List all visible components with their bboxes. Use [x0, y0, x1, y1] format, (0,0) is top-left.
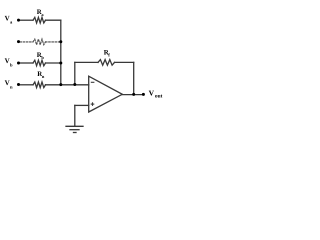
svg-text:out: out: [155, 94, 163, 100]
svg-text:V: V: [5, 79, 10, 87]
svg-text:f: f: [108, 53, 110, 58]
svg-text:b: b: [10, 63, 13, 68]
svg-text:V: V: [149, 89, 155, 98]
svg-text:n: n: [42, 74, 45, 79]
svg-text:a: a: [41, 12, 44, 17]
svg-text:b: b: [41, 55, 44, 60]
svg-text:V: V: [5, 14, 10, 22]
svg-text:a: a: [10, 20, 13, 25]
svg-text:V: V: [5, 57, 10, 65]
svg-text:n: n: [10, 84, 13, 89]
